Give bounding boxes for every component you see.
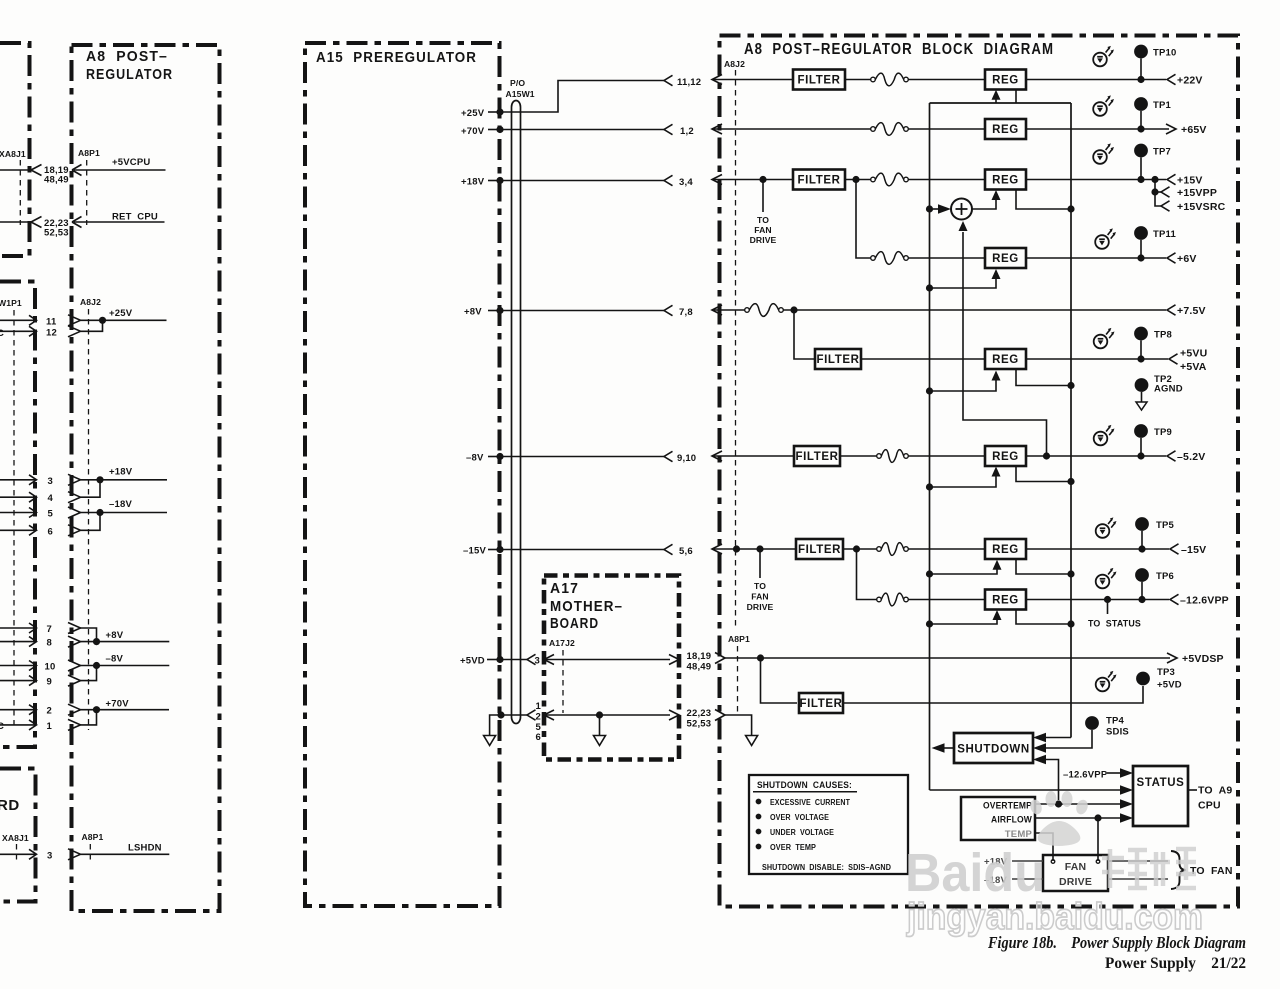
svg-text:TP11: TP11 <box>1153 229 1176 240</box>
led indicator (+5VD) <box>1096 671 1117 691</box>
wire -15V output <box>1026 548 1169 550</box>
title A17 MOTHERBOARD <box>550 580 623 632</box>
junction TP1 <box>1137 125 1144 132</box>
svg-text:9,10: 9,10 <box>677 453 696 464</box>
wire +5VCPU row <box>0 165 166 176</box>
arrow +15VPP <box>1161 187 1170 197</box>
test point TP10 <box>1134 45 1148 80</box>
wire across A17 motherboard (return row) <box>544 710 679 720</box>
dashed connector line W1P1 <box>13 310 15 727</box>
label +6V <box>1177 253 1197 265</box>
watermark baidu paw logo <box>1028 791 1089 846</box>
A17 motherboard box outline <box>544 576 679 760</box>
label C (partial, upper) <box>0 328 4 339</box>
svg-text:1: 1 <box>536 701 542 712</box>
wire A8J2 pin 9 joins pin 10 <box>0 666 97 687</box>
pin number 3 (LSHDN) <box>47 850 52 861</box>
wire A8J2 pin 8 +8V row <box>0 636 169 647</box>
wire +6V output <box>1026 257 1166 259</box>
label TP11 <box>1153 229 1176 240</box>
wire filter to fuse (+15V) <box>845 179 871 181</box>
label +18V (fan) <box>984 857 1008 868</box>
title A15 PREREGULATOR <box>316 49 477 66</box>
svg-text:TEMP: TEMP <box>1005 829 1033 840</box>
label TP6 <box>1156 571 1174 582</box>
pin numbers 11,12 (A15W1) <box>677 77 701 88</box>
label +15V <box>1177 175 1203 187</box>
arrow into summing junction <box>933 204 951 214</box>
wire fuse to regulator (-12.6VPP) <box>908 599 985 601</box>
fan drive block <box>1043 855 1108 891</box>
led indicator (+22V) <box>1093 46 1114 66</box>
arrow -12.6VPP <box>1170 594 1179 604</box>
svg-text:MOTHER–: MOTHER– <box>550 598 623 615</box>
fuse (-15V row) <box>877 543 909 556</box>
wire +5VDSP entering block diagram <box>715 653 1177 664</box>
label +5VDSP <box>1182 653 1224 665</box>
junction TP5 <box>1138 545 1145 552</box>
label +25V (A15) <box>461 108 485 119</box>
svg-text:22,23: 22,23 <box>687 708 712 719</box>
wire fan drive output lower <box>1108 878 1168 880</box>
regulator REG (+15V) <box>985 170 1026 190</box>
pin number 10 <box>45 662 56 673</box>
test point TP8 <box>1134 327 1148 359</box>
junction +15V branch <box>1151 176 1158 183</box>
label +8V (A8 box) <box>106 630 124 641</box>
dashed connector line A8J2 right <box>735 70 737 628</box>
wire A8J2 pin 11 +25V row <box>0 315 167 326</box>
label TP4 SDIS <box>1106 716 1129 738</box>
svg-text:+15V: +15V <box>1177 175 1203 187</box>
label TP3 +5VD <box>1157 667 1182 691</box>
wire A8J2 pin 3 +18V row <box>0 474 167 485</box>
svg-text:–12.6VPP: –12.6VPP <box>1180 595 1229 607</box>
pin numbers 1,2 <box>680 126 694 137</box>
svg-text:+15VPP: +15VPP <box>1177 187 1217 199</box>
svg-text:6: 6 <box>536 732 541 743</box>
label TP9 <box>1154 427 1172 438</box>
svg-text:–18V: –18V <box>109 499 132 510</box>
label +8V (A15) <box>464 307 482 318</box>
svg-text:REG: REG <box>992 354 1019 366</box>
sense line REG -5.2V <box>1016 466 1075 485</box>
svg-text:1: 1 <box>47 721 53 732</box>
wire +15V feed into block diagram <box>712 175 793 185</box>
wire +65V output <box>1026 128 1169 130</box>
test point TP5 <box>1135 517 1149 549</box>
A8 post-regulator box outline <box>72 45 220 911</box>
label TO FAN DRIVE (lower) <box>747 581 774 612</box>
wire fuse to regulator (-15V) <box>908 548 985 550</box>
svg-text:+7.5V: +7.5V <box>1177 305 1206 317</box>
svg-text:9: 9 <box>47 677 52 688</box>
pin number 5 <box>48 509 54 520</box>
junction +18V pins <box>96 476 103 483</box>
svg-text:+25V: +25V <box>109 308 133 319</box>
svg-text:A15W1: A15W1 <box>506 89 535 99</box>
test point TP7 <box>1134 144 1148 180</box>
caption Figure 18b Power Supply Block Diagram <box>987 933 1246 952</box>
svg-text:XA8J1: XA8J1 <box>2 833 29 843</box>
svg-text:TO A9: TO A9 <box>1198 785 1232 797</box>
svg-text:REGULATOR: REGULATOR <box>86 66 173 83</box>
svg-text:REG: REG <box>992 451 1019 463</box>
svg-text:DRIVE: DRIVE <box>747 602 774 612</box>
svg-text:RET CPU: RET CPU <box>112 212 158 223</box>
arrow +65V <box>1166 124 1176 134</box>
svg-text:C: C <box>0 328 4 339</box>
label TO STATUS <box>1088 619 1141 630</box>
svg-text:7,8: 7,8 <box>679 307 693 318</box>
wire +5VD to TP3 <box>843 686 1143 703</box>
svg-text:REG: REG <box>992 544 1019 556</box>
junction +15VPP <box>1151 188 1161 195</box>
fuse (+6V row) <box>871 252 909 265</box>
sense line REG -15V <box>1016 560 1075 578</box>
junction to status tap <box>1104 596 1111 614</box>
label TO A9 CPU <box>1198 785 1232 812</box>
label A8J2 (block diagram) <box>724 59 745 69</box>
svg-text:7: 7 <box>47 624 52 635</box>
arrow +22V <box>1167 74 1176 84</box>
svg-text:48,49: 48,49 <box>687 662 712 673</box>
label -12.6VPP (status input) <box>1063 770 1108 781</box>
pin number 8 <box>47 638 52 649</box>
board box bottom-left partial outline <box>0 769 36 902</box>
svg-text:TP7: TP7 <box>1153 147 1171 158</box>
pin number 4 <box>48 493 54 504</box>
wire A8J2 pin 12 joins pin 11 <box>0 320 103 337</box>
dashed connector line XA8J1 top <box>19 160 21 225</box>
feedback riser to summing junction <box>959 221 1047 456</box>
wire across A17 motherboard (+5VD row) <box>544 655 679 665</box>
A15 preregulator box outline <box>305 43 500 906</box>
svg-text:FILTER: FILTER <box>798 75 841 87</box>
svg-text:48,49: 48,49 <box>44 175 69 186</box>
status block <box>1133 766 1188 826</box>
svg-text:FILTER: FILTER <box>817 354 860 366</box>
wire filter to fuse (+22V) <box>845 79 871 81</box>
test point TP2 AGND <box>1135 378 1149 410</box>
legend bullet over voltage <box>756 812 830 822</box>
label +5VD (A15) <box>460 656 485 667</box>
brace to fan <box>1171 851 1186 889</box>
svg-text:11: 11 <box>46 317 57 328</box>
svg-text:10: 10 <box>45 662 56 673</box>
label A8P1 (top) <box>78 148 100 158</box>
wire +8V from A15 to pins 7,8 <box>488 305 673 315</box>
title A8 POST-REGULATOR BLOCK DIAGRAM <box>744 41 1054 58</box>
svg-text:3: 3 <box>535 656 540 667</box>
wire A8J2 pin 7 joins pin 8 <box>0 623 97 642</box>
dashed connector line A8P1 top <box>86 160 88 225</box>
label -8V (A8 box) <box>106 654 124 665</box>
arrow -15V <box>1170 544 1179 554</box>
filter (+22V row) <box>793 70 845 90</box>
arrow +15V <box>1167 174 1176 184</box>
svg-text:–12.6VPP: –12.6VPP <box>1063 770 1108 781</box>
wire fuse to regulator (+22V) <box>908 79 985 81</box>
svg-text:+5VCPU: +5VCPU <box>112 157 150 168</box>
wire A8J2 pin 2 +70V row <box>0 704 169 715</box>
junction filter output (-15V) <box>853 545 860 552</box>
arrow +5VU <box>1169 354 1178 364</box>
svg-text:LSHDN: LSHDN <box>128 843 162 854</box>
shutdown block <box>954 733 1033 763</box>
label RD (partial board name) <box>0 797 20 814</box>
pin number 6 <box>48 527 53 538</box>
wire A8J2 pin 4 joins pin 3 <box>0 480 100 503</box>
svg-text:SHUTDOWN: SHUTDOWN <box>957 744 1030 756</box>
summing junction <box>951 199 972 220</box>
junction filter output (+15V) <box>852 176 859 183</box>
label +65V <box>1181 124 1207 136</box>
svg-text:RD: RD <box>0 797 20 814</box>
pin numbers 5,6 <box>679 546 693 557</box>
test point TP4 SDIS <box>1033 716 1099 753</box>
svg-text:AGND: AGND <box>1154 384 1183 395</box>
svg-text:FAN: FAN <box>751 592 769 602</box>
label +18V (A15) <box>461 177 485 188</box>
wire fuse to +7.5V arrow <box>783 309 1166 311</box>
led indicator (+15V) <box>1093 143 1114 163</box>
label C (partial, lower) <box>0 721 4 732</box>
test point TP3 <box>1136 672 1150 686</box>
regulator REG (+65V) <box>985 119 1026 139</box>
wire RET CPU row <box>0 217 165 228</box>
left feedback bus <box>929 103 931 790</box>
wire overtemp into status <box>1035 799 1133 809</box>
shutdown output arrow to bus <box>932 743 955 753</box>
label P/O A15W1 <box>506 78 535 99</box>
sense line REG +5VU <box>1016 370 1075 390</box>
fuse (+7.5V row) <box>745 304 784 317</box>
label TO FAN DRIVE (upper) <box>750 215 777 245</box>
feedback bus top rail <box>930 102 1072 104</box>
junction +25V pins <box>99 317 106 324</box>
filter (+5VD row) <box>799 693 843 713</box>
wire +7.5V tap down to filter <box>794 310 815 359</box>
svg-text:REG: REG <box>992 175 1019 187</box>
legend shutdown disable note <box>762 862 891 872</box>
legend bullet over temp <box>756 842 817 852</box>
arrow +15VSRC <box>1161 201 1170 211</box>
label +18V (A8 box) <box>109 467 133 478</box>
svg-text:BOARD: BOARD <box>550 615 599 632</box>
pin numbers 7,8 <box>679 307 693 318</box>
svg-text:W1P1: W1P1 <box>0 298 22 308</box>
junction -5.2V sense tap <box>1043 452 1050 459</box>
regulator REG (+6V) <box>985 248 1026 268</box>
cable P/O A15W1 <box>512 101 521 724</box>
svg-text:TP3: TP3 <box>1157 667 1175 678</box>
filter (-15V row) <box>796 539 843 559</box>
sense line REG -12.6VPP <box>1016 610 1075 628</box>
wire airflow into status <box>1035 813 1133 823</box>
label +5VU +5VA <box>1180 348 1207 374</box>
wire +25V from A15 to pins 11,12 <box>488 75 673 115</box>
svg-text:Power Supply 21/22: Power Supply 21/22 <box>1105 955 1246 972</box>
svg-text:–15V: –15V <box>1181 544 1206 556</box>
label +15VSRC <box>1177 201 1226 213</box>
wire +5VDSP tap down to filter <box>761 658 798 703</box>
wire right bus into shutdown <box>1033 733 1071 743</box>
svg-text:+18V: +18V <box>461 177 485 188</box>
control line REG -12.6VPP <box>926 610 1002 628</box>
label LSHDN <box>128 843 162 854</box>
wire +65V feed into block diagram <box>712 124 871 134</box>
junction to fan drive tap (+18V row) <box>759 176 766 212</box>
wire -15V filter tap down to fuse <box>857 549 878 600</box>
junction TP6 <box>1138 596 1145 603</box>
wire shutdown bus into status <box>930 785 1134 795</box>
svg-text:8: 8 <box>47 638 52 649</box>
pin number 3 (A17J2) <box>535 656 540 667</box>
junction TP9 <box>1137 452 1144 459</box>
wire filter to fuse (-15V) <box>843 548 877 550</box>
svg-text:FILTER: FILTER <box>798 175 841 187</box>
fuse (+65V row) <box>871 123 909 136</box>
wire -5.2V feed into block diagram <box>712 451 794 461</box>
svg-text:+65V: +65V <box>1181 124 1207 136</box>
wire +5VU output <box>1026 358 1168 360</box>
pin numbers 3,4 <box>679 177 693 188</box>
led indicator (+6V) <box>1095 228 1116 248</box>
pin number 11 <box>46 317 57 328</box>
control line REG +5VU <box>926 371 1001 395</box>
junction +5VD filter tap <box>757 654 764 661</box>
pin numbers 22,23 52,53 (A8P1) <box>687 708 712 730</box>
svg-text:FILTER: FILTER <box>796 451 839 463</box>
svg-text:A8J2: A8J2 <box>80 297 101 307</box>
svg-text:TP8: TP8 <box>1154 330 1172 341</box>
svg-text:A8P1: A8P1 <box>78 148 100 158</box>
svg-text:P/O: P/O <box>510 78 525 88</box>
label TP2 AGND <box>1154 374 1183 395</box>
regulator REG (-5.2V) <box>985 446 1026 466</box>
svg-text:A15 PREREGULATOR: A15 PREREGULATOR <box>316 49 477 66</box>
svg-text:Baidu: Baidu <box>905 843 1045 903</box>
label A8P1 (bottom left) <box>82 832 104 842</box>
svg-text:FILTER: FILTER <box>800 698 843 710</box>
wire -12.6VPP output <box>1026 599 1169 601</box>
junction airflow line <box>1094 814 1101 821</box>
svg-text:–5.2V: –5.2V <box>1177 451 1205 463</box>
svg-text:CPU: CPU <box>1198 800 1221 812</box>
svg-text:TO FAN: TO FAN <box>1190 865 1233 877</box>
svg-text:OVER TEMP: OVER TEMP <box>770 842 816 852</box>
svg-text:TO: TO <box>754 581 766 591</box>
sense line REG +15V <box>1016 190 1071 209</box>
fuse (+22V row) <box>871 73 909 86</box>
wire -5.2V output <box>1026 455 1166 457</box>
wire overtemp into shutdown <box>1033 755 1059 800</box>
svg-text:52,53: 52,53 <box>687 719 712 730</box>
wire status to A9 CPU <box>1188 789 1197 791</box>
svg-text:+5VD: +5VD <box>1157 680 1182 691</box>
svg-text:FAN: FAN <box>754 225 772 235</box>
svg-text:+25V: +25V <box>461 108 485 119</box>
fuse (-5.2V row) <box>877 450 909 463</box>
svg-text:11,12: 11,12 <box>677 77 701 88</box>
junction A17 ground tap <box>596 711 603 735</box>
junction TP10 <box>1137 76 1144 83</box>
svg-text:18,19: 18,19 <box>687 651 712 662</box>
svg-text:REG: REG <box>992 253 1019 265</box>
svg-text:–8V: –8V <box>466 453 484 464</box>
svg-text:A8P1: A8P1 <box>728 634 750 644</box>
svg-text:12: 12 <box>46 328 57 339</box>
label +5VCPU <box>112 157 150 168</box>
svg-text:EXCESSIVE CURRENT: EXCESSIVE CURRENT <box>770 797 851 807</box>
shutdown causes legend box <box>749 775 908 874</box>
svg-text:OVER VOLTAGE: OVER VOLTAGE <box>770 812 829 822</box>
svg-text:FILTER: FILTER <box>798 544 841 556</box>
svg-text:+15VSRC: +15VSRC <box>1177 201 1226 213</box>
label A8P1 (block diagram) <box>728 634 750 644</box>
regulator REG (+5VU) <box>985 349 1026 369</box>
sense line REG +22V <box>1015 90 1017 104</box>
filter (-5.2V row) <box>794 446 840 466</box>
led indicator (-12.6VPP) <box>1096 568 1117 588</box>
wire +18V from A15 to pins 3,4 <box>488 175 673 185</box>
junction TP7 <box>1137 176 1144 183</box>
test point TP1 <box>1134 97 1148 129</box>
watermark jingyan.baidu.com <box>906 896 1203 937</box>
svg-text:+5VA: +5VA <box>1180 361 1207 373</box>
legend bullet excessive current <box>756 797 851 807</box>
svg-text:+5VD: +5VD <box>460 656 485 667</box>
junction -8V pins <box>93 662 100 669</box>
pin number 3 <box>48 476 53 487</box>
pin numbers 1 2 5 6 (A17J2) <box>536 701 542 743</box>
label +25V (A8 box) <box>109 308 133 319</box>
svg-text:SHUTDOWN CAUSES:: SHUTDOWN CAUSES: <box>757 780 852 791</box>
ground symbol (A8 return) <box>746 736 758 746</box>
svg-text:+6V: +6V <box>1177 253 1197 265</box>
pin number 2 <box>47 706 52 717</box>
label RET CPU <box>112 212 158 223</box>
svg-text:STATUS: STATUS <box>1137 777 1185 789</box>
wire +22V feed into block diagram <box>712 75 793 85</box>
label +15VPP <box>1177 187 1217 199</box>
svg-text:–15V: –15V <box>463 546 486 557</box>
label A8J2 (left) <box>80 297 101 307</box>
wire fuse to regulator (-5.2V) <box>908 455 985 457</box>
label +22V <box>1177 75 1203 87</box>
svg-text:A8 POST–REGULATOR BLOCK DIA: A8 POST–REGULATOR BLOCK DIAGRAM <box>744 41 1054 58</box>
svg-text:2: 2 <box>47 706 52 717</box>
svg-text:52,53: 52,53 <box>44 228 69 239</box>
label -12.6VPP <box>1180 595 1229 607</box>
wire A8J2 pin 1 joins pin 2 <box>0 710 97 731</box>
wire -18V to fan drive <box>1012 878 1043 880</box>
arrow -5.2V <box>1167 451 1176 461</box>
svg-text:5,6: 5,6 <box>679 546 693 557</box>
wire +22V output <box>1026 79 1166 81</box>
test point TP11 <box>1134 226 1148 258</box>
A8 post-regulator block diagram box outline <box>720 36 1239 907</box>
svg-text:XA8J1: XA8J1 <box>0 149 26 159</box>
junction -18V pins <box>96 509 103 516</box>
svg-text:+22V: +22V <box>1177 75 1203 87</box>
wire fuse to regulator (+6V) <box>908 257 985 259</box>
dashed connector line A8J2 left <box>88 309 90 730</box>
right sense bus <box>1070 103 1072 738</box>
svg-text:A17J2: A17J2 <box>549 638 575 648</box>
svg-text:+5VU: +5VU <box>1180 348 1207 360</box>
